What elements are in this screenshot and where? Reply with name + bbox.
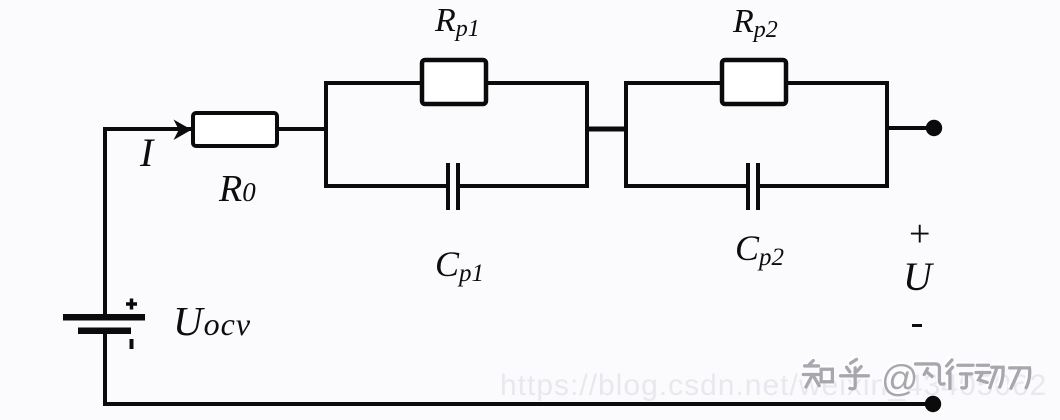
svg-text:I: I [139,130,155,175]
svg-text:U: U [903,254,935,299]
svg-text:+: + [909,213,930,255]
svg-text:@: @ [881,358,919,399]
